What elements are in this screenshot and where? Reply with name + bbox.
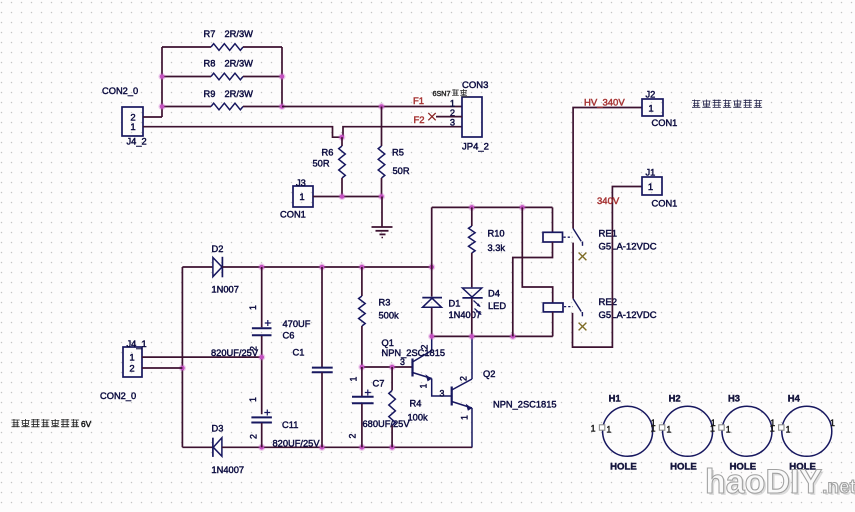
hole H1 [591,393,656,473]
svg-text:C6: C6 [283,331,295,341]
svg-text:H3: H3 [728,393,740,404]
svg-text:HV_340V: HV_340V [584,98,625,109]
svg-text:CON3: CON3 [462,80,488,91]
svg-text:J4_1: J4_1 [127,339,147,349]
svg-text:470UF: 470UF [283,319,311,329]
no-connect X RE2 [579,323,587,331]
wire left bus vertical [181,267,183,447]
svg-text:1: 1 [710,424,715,434]
resistor R5 [378,107,385,197]
svg-text:1: 1 [648,182,653,193]
svg-text:1: 1 [591,424,596,434]
svg-text:2R/3W: 2R/3W [225,59,254,69]
resistor R6 [339,137,346,196]
pin 2 stub of JP4_2 [436,116,462,118]
svg-text:1: 1 [770,424,775,434]
svg-text:CON2_0: CON2_0 [102,86,138,96]
junctions on top rail [258,263,435,270]
annotation: to HV rectifier circuit (Chinese) [692,100,762,108]
svg-text:1: 1 [419,383,429,388]
watermark haoDIY.net [705,463,855,503]
svg-text:1: 1 [130,122,135,133]
svg-text:2R/3W: 2R/3W [225,29,254,39]
svg-text:H2: H2 [669,393,681,404]
svg-text:50R: 50R [393,166,410,176]
wire bottom rail [222,446,472,448]
svg-text:J4_2: J4_2 [127,137,147,147]
diode D1 [422,207,442,336]
ground [372,227,393,238]
wire Q1 base net [362,366,413,368]
svg-text:2: 2 [420,344,430,349]
svg-text:1: 1 [248,305,258,310]
svg-text:CON1: CON1 [280,210,306,220]
svg-text:1: 1 [460,415,470,420]
diode D2 [213,257,223,278]
svg-text:J1: J1 [646,168,656,178]
svg-text:680UF/25V: 680UF/25V [363,419,411,429]
svg-text:500k: 500k [379,311,400,321]
wire HV_340V from RE1 pole to J2 [573,108,642,229]
svg-text:HOLE: HOLE [670,462,697,473]
svg-text:J2: J2 [646,90,656,100]
junction dots resistor bank [158,73,285,110]
relay RE1 coil dashed link [564,236,573,238]
connector J2 [642,99,663,116]
wire top rail [222,266,431,268]
wire J4_2 pin1 / F2 net to JP4_2 pin3 with jog [143,127,462,138]
wire left resistor bus [161,47,163,117]
wire RE1 contact down to RE2 pole [572,243,574,299]
relay RE2 coil [522,207,563,336]
resistor R3 [359,267,366,367]
svg-text:D3: D3 [212,424,224,434]
svg-text:G5LA-12VDC: G5LA-12VDC [599,310,657,321]
svg-text:R8: R8 [204,59,216,69]
svg-text:3.3k: 3.3k [488,243,506,253]
svg-text:2R/3W: 2R/3W [225,89,254,99]
svg-text:1: 1 [129,353,134,364]
svg-text:1: 1 [830,418,835,428]
connector J3 [293,186,313,207]
wire J4_2 pin2 to resistor bus [143,116,162,118]
svg-text:1N007: 1N007 [212,285,239,295]
svg-text:H4: H4 [788,393,801,404]
capacitor C11 [251,410,272,448]
svg-text:1: 1 [349,376,359,381]
svg-text:1: 1 [648,104,653,115]
hole H4 [770,393,835,473]
svg-text:C11: C11 [282,420,298,430]
wire bottom rail left segment [182,446,213,448]
svg-text:1: 1 [450,99,455,109]
svg-text:F2: F2 [414,115,425,126]
svg-text:2: 2 [249,434,259,439]
svg-text:3: 3 [400,357,405,367]
svg-text:1: 1 [726,425,731,435]
svg-text:CON2_0: CON2_0 [100,391,136,401]
no-ERC X on JP4_2 pin2 [428,113,435,120]
svg-text:50R: 50R [313,159,330,169]
capacitor C7 [352,367,374,447]
svg-text:6V: 6V [81,419,92,429]
svg-text:R4: R4 [410,399,422,409]
no-connect X RE1 [579,253,587,261]
svg-text:D2: D2 [212,244,224,254]
svg-text:Q1: Q1 [382,338,394,348]
wire right resistor bus [281,47,283,107]
svg-text:1: 1 [606,425,611,435]
resistor R4 [389,367,396,447]
resistor R8 [162,73,282,80]
junction R6 bottom [338,193,345,200]
junction R3/C7 [358,363,365,370]
svg-text:1: 1 [651,424,656,434]
svg-text:R6: R6 [322,148,334,158]
svg-text:1N4007: 1N4007 [212,465,245,475]
annotation: filament transformer output 6V (Chinese) [12,419,92,429]
svg-text:1: 1 [666,425,671,435]
wire RE2 contact to J1 [573,187,643,348]
svg-text:C7: C7 [373,379,385,389]
svg-text:6SN7: 6SN7 [433,89,451,98]
svg-text:C1: C1 [293,348,305,358]
svg-text:R7: R7 [204,29,216,39]
svg-text:D1: D1 [449,299,461,309]
svg-text:340V: 340V [597,196,620,207]
svg-text:2: 2 [459,376,469,381]
relay RE2 switch armature [573,299,582,317]
svg-text:G5LA-12VDC: G5LA-12VDC [599,242,657,253]
wire collector net y336 [432,335,553,337]
svg-text:820UF/25V: 820UF/25V [211,348,259,358]
svg-text:CON1: CON1 [652,199,678,209]
junction C6-C11-J4_1 [258,354,265,361]
connector J1 [642,177,662,195]
svg-text:3: 3 [440,389,445,399]
svg-text:R5: R5 [392,148,404,158]
junction RE2 feed [519,204,526,211]
LED D4 [462,288,482,336]
junction J4_1 pin2 on bus [179,364,186,371]
svg-text:1N4007: 1N4007 [449,310,482,320]
relay RE1 coil [513,207,563,336]
hole H3 [710,393,775,473]
svg-text:F1: F1 [413,96,424,107]
junction R6 top [338,134,345,141]
svg-text:D4: D4 [488,289,500,299]
wire to ground [381,197,383,228]
svg-text:1: 1 [299,192,304,203]
svg-text:R10: R10 [488,229,505,239]
resistor R10 [469,207,476,287]
svg-text:NPN_2SC1815: NPN_2SC1815 [493,400,557,410]
wire J4_1 pin1 to C6/C11 node [142,356,262,358]
relay RE1 switch armature [573,229,582,246]
junctions on y336 wire [428,333,516,340]
wire J3 pin1 to R6/R5 bottoms [313,196,382,198]
junction R5 top [378,103,385,110]
annotation 6SN7 filament (small) [433,89,470,98]
connector JP4_2 / CON3 [462,97,482,137]
wire top rail left of D2 [182,266,212,268]
svg-text:RE1: RE1 [599,229,617,240]
svg-text:JP4_2: JP4_2 [462,142,489,153]
svg-text:J3: J3 [296,178,306,188]
transistor Q1 [413,336,452,396]
junction R5 bottom [378,193,385,200]
capacitor C6 [252,267,272,414]
svg-text:R9: R9 [204,89,216,99]
connector J4_1 [123,347,142,377]
svg-text:1: 1 [248,397,258,402]
resistor R7 [162,44,282,51]
svg-text:2: 2 [348,433,358,438]
svg-text:CON1: CON1 [652,118,678,128]
svg-text:LED: LED [488,301,506,311]
wire F1 net to JP4_2 pin1 [282,106,462,108]
svg-text:2: 2 [129,364,134,375]
svg-text:NPN_2SC1815: NPN_2SC1815 [382,348,446,358]
svg-text:820UF/25V: 820UF/25V [273,439,321,449]
junction R4 top [389,363,396,370]
wire J4_1 pin2 to bus [142,367,182,369]
hole H2 [651,393,716,473]
svg-text:H1: H1 [609,393,621,404]
wire relay feed top [432,206,553,208]
relay RE2 coil dashed link [564,306,573,308]
svg-text:100k: 100k [408,413,429,423]
junctions on bottom rail [258,444,396,451]
svg-text:RE2: RE2 [599,297,617,308]
resistor R9 [162,103,282,110]
diode D3 [213,438,222,457]
svg-text:Q2: Q2 [483,369,495,379]
junction R10 top [468,204,475,211]
svg-text:R3: R3 [379,298,391,308]
capacitor C1 [312,267,333,447]
connector J4_2 [122,107,143,136]
transistor Q2 [452,336,472,447]
svg-text:3: 3 [450,118,455,128]
svg-text:1: 1 [786,425,791,435]
svg-text:HOLE: HOLE [610,462,637,473]
